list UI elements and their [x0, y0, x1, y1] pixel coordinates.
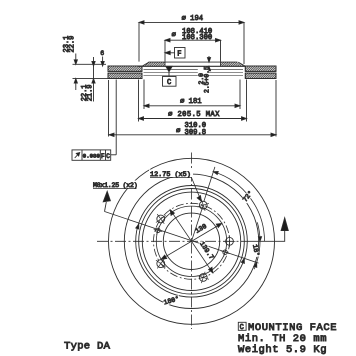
section: hat plate top face — [149, 61, 238, 63]
angular dimension 72 deg (arc r=73) — [213, 171, 264, 241]
svg-text:⌀: ⌀ — [172, 32, 177, 40]
svg-text:F: F — [177, 51, 181, 59]
section: transition chamfer left — [142, 62, 149, 66]
dimension 2.5+0.5/2.0 (hat plate thickness) — [198, 56, 211, 93]
front view: M8 axis line through both M8 holes — [104, 211, 258, 263]
front view: bolt hole at 0 deg — [224, 235, 236, 247]
front view: bolt hole at 144 deg — [156, 214, 166, 224]
svg-text:C: C — [106, 153, 110, 160]
svg-text:⌀ 194: ⌀ 194 — [182, 15, 204, 23]
section: transition chamfer right — [238, 62, 245, 66]
svg-text:309.8: 309.8 — [185, 129, 207, 137]
left rotation arrow — [103, 191, 110, 211]
angular dimension 18 deg (arc r=68.5) — [251, 222, 262, 269]
front view: bolt hole at 72 deg — [198, 199, 209, 210]
dimension Ø205.5 MAX — [139, 111, 247, 120]
svg-text:⌀: ⌀ — [176, 128, 181, 136]
front view: band inner circle Ø205.5 — [136, 186, 248, 298]
front view: hat circle Ø194 — [139, 189, 245, 295]
section: far-side line 2 — [144, 71, 244, 73]
front view: M8 hole at 162 deg — [154, 226, 163, 235]
svg-text:Weight 5.9 Kg: Weight 5.9 Kg — [238, 344, 327, 356]
dimension Ø194 — [139, 15, 244, 64]
bottom-right text block: C MOUNTING FACE — [238, 322, 337, 356]
section: far-side line 3 — [144, 74, 244, 76]
svg-text:⌀ 205.5 MAX: ⌀ 205.5 MAX — [168, 111, 220, 119]
dimension 22.1/21.9 (band thickness) — [81, 57, 95, 102]
svg-text:22.9: 22.9 — [69, 36, 77, 53]
dimension 6 (small vertical) — [100, 50, 104, 66]
datum C triangle and box — [163, 66, 177, 87]
svg-text:Min. TH 20 mm: Min. TH 20 mm — [238, 333, 327, 345]
extension lines below section — [109, 80, 277, 155]
section: braking band left outer (hatched bars) — [108, 66, 142, 79]
dimension Ø108.410/108.300 — [165, 28, 221, 62]
dimension Ø130 diameter line — [161, 221, 222, 259]
svg-text:C: C — [167, 79, 171, 87]
radial line to top bolt hole — [192, 205, 204, 241]
label M8x1.25 (x2) — [92, 181, 138, 190]
front view: circle Ø130 — [156, 206, 226, 276]
front view: horizontal centerline — [97, 240, 252, 242]
svg-text:C: C — [240, 324, 244, 332]
front view: vertical centerline — [191, 153, 193, 330]
section: bore wall left — [164, 62, 166, 66]
dimension 23.1/22.9 (left, overall thickness) — [63, 36, 108, 90]
right rotation arrow — [252, 218, 288, 242]
front view: center bore Ø108 — [163, 213, 219, 269]
section: hat plate hatch left — [142, 62, 165, 66]
dimension Ø310.0/309.8 — [109, 122, 276, 137]
front view: bolt hole at 216 deg — [156, 259, 166, 269]
label 12.75 (x5) with leader — [149, 170, 201, 202]
svg-text:⌀ 181: ⌀ 181 — [180, 98, 202, 106]
angular dimension 180 deg (arc r=55.5) — [136, 224, 245, 306]
svg-text:M8x1.25 (x2): M8x1.25 (x2) — [93, 182, 137, 189]
svg-text:6: 6 — [100, 50, 104, 57]
front view: M8 hole at -18 deg — [221, 248, 230, 257]
section: hat plate hatch right — [221, 62, 244, 66]
svg-text:2.0: 2.0 — [198, 73, 205, 85]
svg-text:F: F — [101, 153, 105, 160]
section: hat plate bottom face (mounting face) — [138, 65, 246, 67]
runout feature control frame 0.080 F C — [72, 150, 116, 160]
svg-text:0.080: 0.080 — [83, 153, 101, 160]
front view: braking band inner circle — [124, 174, 258, 308]
svg-text:108.300: 108.300 — [182, 34, 212, 42]
datum F box with leader — [165, 48, 185, 59]
section: bore wall right — [220, 62, 222, 66]
front view: outer circle Ø310 — [109, 158, 275, 324]
section: far-side line 1 — [144, 68, 244, 70]
svg-text:21.9: 21.9 — [87, 84, 95, 101]
dimension Ø139.7 diameter line — [170, 210, 215, 273]
front view: bolt circle Ø139.7 (dash-dot) — [154, 203, 230, 279]
extension of 72deg radial beyond hole — [204, 167, 215, 201]
front view: circle Ø181 — [142, 192, 240, 290]
front view: bolt hole at 288 deg — [198, 272, 209, 283]
svg-text:Type DA: Type DA — [64, 341, 111, 353]
dimension Ø181 — [144, 98, 240, 107]
section: braking band right outer (hatched bars) — [245, 66, 276, 79]
